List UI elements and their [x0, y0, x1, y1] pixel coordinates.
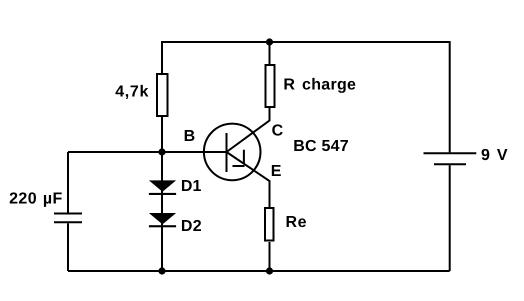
- svg-text:9 V: 9 V: [481, 147, 508, 164]
- svg-text:E: E: [271, 163, 282, 180]
- svg-text:4,7k: 4,7k: [115, 83, 149, 100]
- svg-text:BC 547: BC 547: [293, 138, 349, 155]
- svg-text:Re: Re: [286, 214, 308, 231]
- svg-text:D2: D2: [181, 218, 202, 235]
- svg-text:R charge: R charge: [283, 77, 356, 94]
- svg-text:D1: D1: [181, 178, 202, 195]
- svg-text:C: C: [272, 123, 284, 140]
- svg-text:B: B: [184, 128, 196, 145]
- svg-text:220 µF: 220 µF: [9, 191, 63, 208]
